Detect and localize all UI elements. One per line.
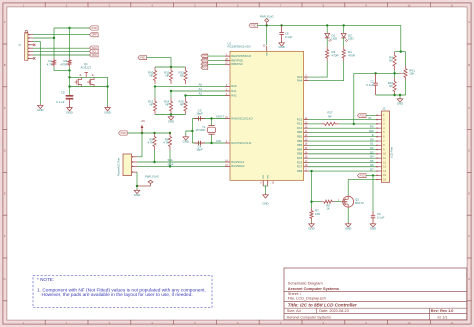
wire R9 bottom join	[394, 70, 396, 78]
svg-text:D2: D2	[370, 146, 374, 150]
svg-text:RC3/SCL2: RC3/SCL2	[231, 160, 244, 164]
svg-text:NF: NF	[180, 103, 184, 107]
ground J3	[134, 189, 140, 197]
svg-text:PIC18F26K22-I/SO: PIC18F26K22-I/SO	[228, 45, 251, 49]
svg-text:NF: NF	[328, 114, 332, 118]
svg-text:10K: 10K	[315, 212, 320, 216]
ground Q1 right	[104, 106, 110, 114]
svg-text:J2: J2	[383, 107, 386, 111]
label SCL net	[168, 158, 174, 162]
svg-text:VDD: VDD	[267, 51, 269, 56]
wire network bottom rail	[155, 113, 186, 115]
svg-text:GND: GND	[66, 111, 72, 115]
wire R5 to SCL	[153, 150, 155, 163]
ground pot	[397, 98, 403, 106]
global label PSD top-left	[90, 26, 99, 30]
title block	[284, 268, 467, 320]
svg-text:470R: 470R	[348, 53, 355, 57]
svg-text:GND: GND	[345, 227, 351, 231]
U1 pins SCL SDA	[225, 160, 245, 168]
svg-text:GND: GND	[278, 45, 284, 49]
svg-text:D4: D4	[370, 155, 374, 159]
wire R8 to Q2 gate	[335, 199, 342, 201]
svg-text:RC2: RC2	[297, 126, 303, 130]
U1 VSS pins	[260, 174, 275, 186]
label D4 net	[370, 155, 374, 159]
svg-text:Date: 2020-08-23: Date: 2020-08-23	[319, 309, 349, 313]
svg-text:C9: C9	[61, 90, 65, 94]
svg-text:RB4: RB4	[297, 147, 303, 151]
wire gate node to R6b	[312, 201, 322, 203]
global label PSD network	[138, 56, 147, 60]
svg-text:Power/I2C Port: Power/I2C Port	[117, 158, 121, 176]
wire J1 pin2 to node	[33, 37, 55, 39]
svg-text:PSD: PSD	[140, 57, 145, 60]
svg-text:NF: NF	[165, 74, 169, 78]
svg-text:470R: 470R	[332, 53, 339, 57]
svg-text:XOUT: XOUT	[216, 114, 224, 118]
svg-text:A: A	[468, 20, 470, 24]
wire U1 to J2 pin2	[309, 119, 376, 121]
global label PGC at U1	[201, 66, 208, 70]
wire R17 to J2 pin3	[339, 123, 376, 125]
label A1 net	[199, 87, 203, 91]
global label PSD top rail	[249, 23, 258, 27]
label D1 net	[370, 142, 374, 146]
wire rail to pot	[395, 25, 406, 52]
svg-text:RB0: RB0	[297, 130, 303, 134]
U1 pin RA7/OSC1	[225, 141, 252, 145]
svg-text:RW: RW	[369, 129, 374, 133]
wire U1 to J2 pin7	[309, 140, 376, 142]
U1 left pins top group	[225, 54, 251, 66]
wire network gnd stub	[170, 115, 172, 116]
power +5V middle	[140, 119, 145, 133]
wire U1 to J2 pin4	[309, 127, 376, 129]
wire U1 to J2 pin10	[309, 153, 376, 155]
svg-text:1K: 1K	[326, 207, 330, 211]
svg-text:PSD: PSD	[92, 27, 97, 30]
wires U1 prog labels	[208, 56, 225, 64]
label XIN	[216, 139, 221, 143]
transistor Q2	[342, 195, 364, 208]
svg-text:A: A	[4, 20, 6, 24]
global label SCL	[90, 50, 99, 54]
LED D2	[341, 25, 353, 46]
capacitor C5	[279, 25, 292, 41]
wire R6 to SDA	[169, 150, 171, 168]
resistor R1	[47, 58, 56, 67]
J1 port name	[0, 0, 1, 1]
svg-text:D0: D0	[370, 137, 374, 141]
resistor R6	[163, 133, 172, 150]
svg-text:SCL: SCL	[168, 158, 174, 162]
svg-text:LED: LED	[348, 37, 354, 41]
wire VDD riser	[266, 25, 268, 45]
wire SDA row	[137, 165, 225, 167]
svg-text:NF: NF	[165, 103, 169, 107]
svg-text:D5: D5	[370, 159, 374, 163]
svg-text:4.7k: 4.7k	[163, 141, 169, 145]
svg-text:0.1uF: 0.1uF	[285, 35, 293, 39]
svg-text:SDA: SDA	[168, 162, 174, 166]
ground J1 pin3	[37, 104, 43, 112]
label A2 net	[199, 92, 203, 96]
wire pot to contrast	[353, 73, 355, 124]
svg-text:OFF: OFF	[202, 55, 207, 58]
wire U1 to J2 pin13	[309, 166, 376, 168]
wire +5V top rail	[258, 24, 401, 26]
wire J1 pin5 to SDA	[33, 47, 90, 49]
svg-text:RB5: RB5	[297, 152, 303, 156]
svg-text:NF: NF	[180, 74, 184, 78]
U1 right bundle pins	[297, 117, 309, 172]
resistor R15	[178, 96, 187, 115]
wire R1 bottom tie	[54, 67, 71, 72]
wire XOUT row	[192, 117, 225, 119]
svg-text:0.1uF: 0.1uF	[366, 83, 374, 87]
ground Q2	[345, 223, 351, 231]
wire R7 to ground	[311, 221, 313, 223]
svg-text:RC1: RC1	[297, 122, 303, 126]
svg-text:16 MHz: 16 MHz	[196, 128, 207, 132]
resistor R5	[148, 133, 157, 150]
svg-text:PSD: PSD	[360, 115, 365, 118]
wire U1 to J2 pin12	[309, 161, 376, 163]
svg-text:D1: D1	[370, 142, 374, 146]
svg-text:RA4: RA4	[297, 78, 303, 82]
resistor R8	[321, 200, 335, 211]
svg-text:Size: A4: Size: A4	[287, 309, 301, 313]
svg-text:RC7: RC7	[297, 165, 303, 169]
svg-text:GND: GND	[104, 111, 110, 115]
svg-text:G: G	[4, 277, 6, 281]
wire J1 pin3 bend to ground	[33, 41, 40, 104]
ground network	[168, 116, 174, 124]
connector J3	[117, 154, 138, 176]
svg-text:RB1: RB1	[297, 135, 303, 139]
resistor R17	[321, 111, 339, 126]
wire U1 to J2 pin11	[309, 157, 376, 159]
svg-text:AO3127: AO3127	[80, 65, 91, 69]
svg-text:D6: D6	[370, 163, 374, 167]
svg-text:VSS: VSS	[263, 174, 265, 179]
wire R1 riser	[53, 28, 55, 58]
svg-text:GND: GND	[134, 193, 140, 197]
resistor R10b	[388, 78, 397, 95]
svg-text:GND: GND	[168, 120, 174, 124]
global label RST at U1	[201, 59, 208, 63]
resistor R4	[342, 47, 355, 62]
svg-text:D7: D7	[370, 167, 374, 171]
global label OFF	[90, 33, 99, 37]
wire U1 to J2 pin8	[309, 144, 376, 146]
resistor R7	[310, 202, 320, 221]
wire D1 chain to U1	[309, 61, 328, 77]
svg-text:G: G	[468, 277, 470, 281]
svg-text:RST: RST	[202, 59, 207, 62]
svg-text:NF: NF	[389, 84, 393, 88]
U1 right pins RA3 RA4	[297, 75, 309, 83]
U1 left pins RA0-RA2	[225, 84, 237, 97]
wire PSD to network rail	[147, 58, 173, 69]
ground U1	[263, 194, 269, 206]
no-connect J1 pin8	[33, 57, 35, 59]
wire U1 to J2 pin5	[309, 131, 376, 133]
svg-text:RB2: RB2	[297, 139, 303, 143]
resistor R13	[148, 86, 157, 114]
wire C6 riser	[372, 175, 374, 211]
svg-text:D: D	[468, 149, 470, 153]
global label SDA	[90, 46, 99, 50]
svg-text:LED: LED	[332, 37, 338, 41]
wire Q1 right to ground	[107, 77, 109, 106]
svg-text:Id: 1/1: Id: 1/1	[438, 315, 448, 319]
global label PSD middle	[119, 131, 128, 135]
global label PGD at U1	[201, 62, 208, 66]
ground R7	[308, 223, 314, 231]
svg-text:C: C	[468, 106, 470, 110]
capacitor C3	[194, 109, 205, 121]
wire PSD to J2 pin15	[366, 174, 376, 176]
wire pot bottom rail	[376, 81, 406, 97]
wire U1 to Q2 gate node	[310, 171, 312, 203]
svg-text:GND: GND	[370, 227, 376, 231]
svg-text:A2: A2	[199, 92, 203, 96]
svg-text:CN6: CN6	[92, 54, 98, 57]
svg-text:RB3: RB3	[297, 143, 303, 147]
svg-text:D: D	[4, 149, 6, 153]
svg-text:RC5: RC5	[297, 156, 303, 160]
svg-text:4.7k: 4.7k	[148, 141, 154, 145]
svg-text:GND: GND	[308, 227, 314, 231]
wire J3 pin1 riser to rail	[137, 133, 142, 157]
svg-text:RA2: RA2	[231, 93, 237, 97]
power flag top	[260, 15, 274, 25]
capacitor C6	[371, 211, 385, 223]
capacitor C9	[56, 90, 73, 106]
wire U1 to J2 pin9	[309, 149, 376, 151]
svg-text:0.1 uF: 0.1 uF	[56, 100, 64, 104]
svg-text:4.7k: 4.7k	[47, 62, 53, 66]
svg-text:E: E	[372, 133, 374, 137]
wire U1 to J2 pin14	[309, 170, 376, 172]
svg-text:File: LCD_Display.sch: File: LCD_Display.sch	[288, 296, 326, 301]
label XOUT	[216, 114, 224, 118]
resistor R9	[389, 52, 396, 70]
svg-text:RB6/PGC: RB6/PGC	[231, 62, 243, 66]
label SDA net	[168, 162, 174, 166]
svg-text:BS170: BS170	[355, 201, 364, 205]
svg-text:However, the pads are availabl: However, the pads are available in the l…	[42, 292, 193, 298]
wire J1 pin7 to label	[33, 54, 90, 56]
svg-text:470R: 470R	[60, 62, 67, 66]
wire J1 pin1 to OFF	[33, 34, 90, 36]
wire J2 pin16 to Q2	[348, 180, 376, 196]
svg-text:PWR_FLAG: PWR_FLAG	[145, 176, 159, 179]
wire PSD rail top-left	[54, 27, 90, 29]
power flag J3	[137, 176, 159, 187]
svg-text:RA3: RA3	[297, 75, 303, 79]
svg-text:PSD: PSD	[121, 132, 126, 135]
svg-text:RS: RS	[370, 125, 374, 129]
svg-text:RB6: RB6	[297, 169, 303, 173]
svg-text:RA0: RA0	[231, 84, 237, 88]
svg-text:Aeronet Computer Systems: Aeronet Computer Systems	[287, 315, 331, 319]
svg-text:18pF: 18pF	[196, 112, 203, 116]
ground C9	[66, 106, 72, 114]
svg-text:XIN: XIN	[216, 139, 221, 143]
wire PSD to J2 pin1	[366, 114, 376, 116]
wire J3 pin4 to ground	[136, 172, 138, 189]
svg-text:0.1uF: 0.1uF	[377, 215, 385, 219]
ground crystal	[183, 136, 189, 144]
crystal Y1	[196, 119, 216, 144]
potentiometer RV1	[400, 52, 416, 81]
svg-text:PSD: PSD	[360, 175, 365, 178]
connector J2 LCD Port	[376, 107, 393, 183]
no-connect J1 pin4	[33, 44, 35, 46]
connector J1	[18, 31, 34, 61]
wire pot mid rail	[354, 72, 400, 74]
svg-text:RC4/SDA2: RC4/SDA2	[231, 164, 245, 168]
wire crystal left rail	[191, 119, 193, 144]
svg-text:E: E	[468, 191, 470, 195]
svg-text:J1: J1	[18, 43, 22, 46]
svg-text:NF: NF	[149, 74, 153, 78]
svg-text:RA7/OSC1/CLKI: RA7/OSC1/CLKI	[231, 141, 251, 145]
wire R2 to C9 column	[68, 67, 70, 95]
wire pot gnd stub	[399, 95, 401, 98]
svg-text:C: C	[4, 106, 6, 110]
svg-text:* NOTE:: * NOTE:	[37, 277, 54, 282]
resistor R2	[60, 58, 71, 67]
ground C5	[278, 42, 284, 50]
wire A0 row	[154, 85, 225, 87]
wire network top rail	[155, 66, 186, 68]
svg-text:NF: NF	[149, 103, 153, 107]
svg-text:B: B	[468, 63, 470, 67]
svg-text:GND: GND	[183, 140, 189, 144]
label D2 net	[370, 146, 374, 150]
transistor Q1 dual MOSFET	[70, 62, 109, 88]
svg-text:Schematic Diagram: Schematic Diagram	[288, 280, 324, 285]
svg-text:RB7/PGD: RB7/PGD	[231, 58, 243, 62]
capacitor C4	[194, 141, 205, 152]
label D6 net	[370, 163, 374, 167]
svg-text:PWR_FLAG: PWR_FLAG	[260, 15, 274, 18]
label D7 net	[370, 167, 374, 171]
svg-text:Title: I2C to 8Bit LCD Control: Title: I2C to 8Bit LCD Controller	[288, 302, 357, 307]
svg-text:V0: V0	[368, 116, 372, 120]
label RW net	[369, 129, 374, 133]
svg-text:RC0: RC0	[297, 117, 303, 121]
svg-text:Rev: Rev 1.0: Rev: Rev 1.0	[431, 309, 454, 313]
svg-text:10K: 10K	[409, 71, 414, 75]
global label PSD J2 pin15	[358, 174, 367, 178]
svg-text:LCD Port: LCD Port	[389, 147, 393, 158]
label D0 net	[370, 137, 374, 141]
label A0 net	[199, 83, 203, 87]
label RS net	[370, 125, 374, 129]
wire U1 to R17	[309, 123, 321, 125]
svg-text:B: B	[4, 63, 6, 67]
label D5 net	[370, 159, 374, 163]
resistor R3	[326, 47, 339, 62]
note box	[33, 276, 212, 308]
op-amp U1 PIC18F26K22 body	[228, 41, 304, 180]
resistor R14	[164, 91, 173, 115]
svg-text:VSS: VSS	[268, 174, 270, 179]
U1 VDD pin	[263, 46, 269, 57]
wire U1 to J2 pin6	[309, 136, 376, 138]
svg-text:18pF: 18pF	[196, 148, 203, 152]
svg-text:GND: GND	[397, 102, 403, 106]
svg-text:GND: GND	[263, 202, 269, 206]
svg-text:PSD: PSD	[251, 24, 256, 27]
svg-text:A1: A1	[199, 87, 203, 91]
svg-text:RC6: RC6	[297, 160, 303, 164]
wire D2 chain to U1	[309, 61, 344, 81]
label VDD net	[368, 116, 372, 120]
resistor R12	[178, 67, 187, 84]
ground C6	[370, 223, 376, 231]
global label PSD J2 pin1	[358, 114, 367, 118]
wire A1 row	[170, 90, 225, 92]
svg-text:RE3/VPP/MCLR: RE3/VPP/MCLR	[231, 54, 251, 58]
wire A2 row	[184, 94, 225, 96]
svg-text:OFF: OFF	[92, 34, 97, 37]
svg-text:GND: GND	[37, 108, 43, 112]
label E net	[372, 133, 374, 137]
wire SCL row	[137, 161, 225, 163]
svg-text:A0: A0	[199, 83, 203, 87]
resistor R11	[164, 67, 172, 84]
svg-text:NF: NF	[389, 59, 393, 63]
svg-text:RA6/OSC2/CLKO: RA6/OSC2/CLKO	[231, 116, 252, 120]
global label OFF at U1	[201, 54, 208, 58]
svg-text:RA1: RA1	[231, 89, 237, 93]
capacitor C2	[366, 73, 377, 95]
label D3 net	[370, 150, 374, 154]
wire J1 pin6 to SCL	[33, 51, 90, 53]
LED D1	[325, 25, 337, 46]
svg-text:D3: D3	[370, 150, 374, 154]
wire R2 riser	[69, 28, 71, 58]
svg-text:E: E	[4, 191, 6, 195]
wire XIN row	[192, 142, 225, 144]
svg-text:+5V: +5V	[140, 119, 145, 123]
wire crystal gnd stub	[186, 131, 193, 136]
wire VSS to ground	[263, 186, 268, 194]
resistor R10	[148, 67, 157, 84]
wire Q2 source to ground	[347, 208, 349, 223]
wire PSD rail middle	[128, 132, 172, 134]
svg-text:PGC: PGC	[202, 67, 208, 70]
U1 pin RA6/OSC2	[225, 116, 253, 120]
global label CN	[90, 53, 99, 57]
